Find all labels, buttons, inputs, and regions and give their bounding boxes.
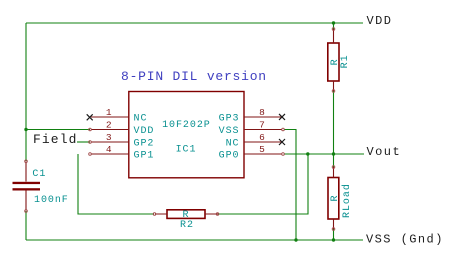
svg-text:IC1: IC1: [176, 145, 197, 156]
svg-text:VDD: VDD: [134, 126, 155, 137]
svg-text:4: 4: [106, 144, 112, 155]
svg-text:C1: C1: [32, 169, 46, 180]
svg-text:NC: NC: [134, 114, 148, 125]
svg-text:NC: NC: [226, 139, 240, 150]
svg-text:VSS: VSS: [219, 126, 240, 137]
svg-text:VSS (Gnd): VSS (Gnd): [366, 233, 444, 247]
svg-text:R: R: [330, 195, 341, 202]
svg-text:R1: R1: [340, 54, 351, 68]
svg-text:R2: R2: [180, 220, 194, 231]
svg-text:3: 3: [106, 132, 112, 143]
svg-text:GP3: GP3: [219, 114, 240, 125]
svg-text:GP0: GP0: [219, 151, 240, 162]
svg-text:GP2: GP2: [134, 139, 155, 150]
svg-text:VDD: VDD: [367, 14, 393, 28]
svg-text:GP1: GP1: [134, 151, 155, 162]
svg-text:Vout: Vout: [367, 145, 402, 159]
svg-text:7: 7: [259, 120, 265, 131]
svg-text:6: 6: [259, 132, 265, 143]
svg-text:8: 8: [259, 107, 265, 118]
svg-text:1: 1: [106, 107, 112, 118]
svg-text:8-PIN DIL version: 8-PIN DIL version: [121, 69, 267, 84]
svg-text:5: 5: [259, 144, 265, 155]
svg-text:RLoad: RLoad: [341, 183, 353, 218]
svg-text:2: 2: [106, 120, 112, 131]
svg-text:100nF: 100nF: [34, 195, 69, 206]
svg-text:Field: Field: [33, 132, 78, 147]
svg-text:10F202P: 10F202P: [162, 120, 211, 131]
